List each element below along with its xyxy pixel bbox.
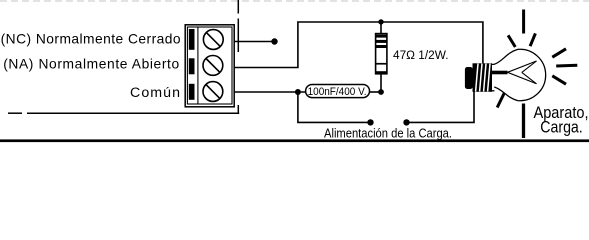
node resistor-capacitor junction dot bbox=[378, 89, 384, 95]
wire NA to bulb (up and across top) bbox=[234, 22, 483, 68]
lamp neck bbox=[492, 64, 494, 91]
terminal bar 2 bbox=[189, 58, 195, 74]
wire Común to capacitor bbox=[234, 91, 306, 93]
module outline bottom edge bbox=[8, 112, 239, 114]
terminal bar 1 bbox=[189, 29, 195, 50]
svg-text:100nF/400 V.: 100nF/400 V. bbox=[308, 86, 367, 98]
light rays bbox=[497, 10, 577, 139]
bottom border rule bbox=[0, 139, 589, 142]
wire capacitor to resistor bbox=[370, 91, 382, 93]
node supply dot right bbox=[403, 119, 409, 125]
module outline right edge (dashed) bbox=[237, 0, 239, 113]
screw 1 (NC) bbox=[203, 30, 223, 50]
node resistor top junction dot bbox=[378, 19, 383, 24]
wire NC stub bbox=[234, 41, 274, 43]
node NC end dot bbox=[271, 38, 277, 44]
lamp base threads bbox=[473, 63, 493, 92]
resistor R body bbox=[376, 34, 387, 74]
svg-text:Carga.: Carga. bbox=[540, 117, 583, 136]
svg-text:(NC) Normalmente Cerrado: (NC) Normalmente Cerrado bbox=[1, 32, 181, 47]
lamp filament bbox=[508, 61, 537, 84]
lamp glass envelope bbox=[494, 49, 545, 100]
terminal block inner box bbox=[187, 27, 232, 104]
terminal block divider bbox=[197, 27, 199, 104]
svg-text:(NA) Normalmente Abierto: (NA) Normalmente Abierto bbox=[3, 57, 179, 72]
lamp base cap bbox=[465, 67, 473, 89]
svg-text:47Ω 1/2W.: 47Ω 1/2W. bbox=[393, 48, 449, 62]
node supply dot left bbox=[367, 119, 373, 125]
terminal bar 3 bbox=[189, 84, 195, 100]
resistor R 47ohm leads bbox=[380, 22, 382, 34]
screw 3 (Común) bbox=[203, 82, 223, 102]
screw 2 (NA) bbox=[203, 56, 223, 76]
wire Común down to bottom rail bbox=[298, 92, 371, 122]
capacitor C oval body bbox=[306, 85, 370, 98]
lamp filament stem bbox=[492, 71, 508, 75]
svg-text:Común: Común bbox=[130, 85, 180, 101]
terminal block outer box bbox=[185, 25, 234, 107]
node Común junction dot bbox=[295, 89, 301, 95]
wire bottom rail to bulb bbox=[407, 89, 475, 122]
faint top scan line bbox=[0, 0, 589, 2]
svg-text:Alimentación de la Carga.: Alimentación de la Carga. bbox=[324, 126, 452, 141]
